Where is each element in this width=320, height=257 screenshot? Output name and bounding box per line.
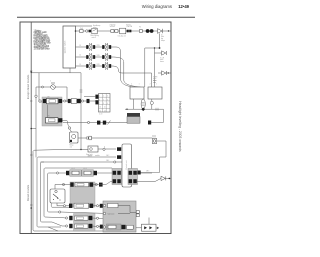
wire gauge labels left — [79, 45, 81, 66]
svg-text:lamps: lamps — [161, 40, 165, 42]
ECU stub 3 — [116, 161, 122, 163]
wire row 206 right — [93, 205, 104, 207]
fuse F19 — [111, 30, 114, 33]
wire left drop — [35, 87, 37, 95]
wire to block A right — [63, 87, 67, 102]
ECU pin blob 2 — [117, 155, 121, 159]
connector hatches x81 — [80, 90, 83, 92]
fuse F5 — [139, 30, 142, 33]
blob 172 — [138, 171, 141, 175]
wire main vertical x81 — [80, 73, 82, 150]
connector circle rowA2 — [82, 100, 84, 102]
pin table blobs — [95, 95, 98, 99]
section label — [88, 155, 100, 157]
block B right component — [136, 211, 139, 214]
pin wire labels — [104, 147, 149, 172]
block B row 2 — [103, 212, 105, 214]
key legend text block — [34, 30, 51, 51]
wire to frame — [166, 72, 171, 74]
wire switch out bottom — [57, 203, 69, 206]
connector circle — [86, 30, 88, 32]
bulbs row 2 wire — [76, 56, 113, 58]
wire block B to right box — [136, 227, 142, 229]
wire drop x39 — [39, 87, 42, 102]
svg-text:5H 4: 5H 4 — [106, 160, 109, 162]
svg-text:C 20: C 20 — [99, 114, 102, 116]
diesel switch box — [50, 189, 65, 203]
fuse F20 — [115, 30, 118, 33]
connector circle left — [35, 95, 37, 97]
levelling motor cylinder — [127, 113, 140, 117]
bulb connector blobs — [86, 45, 111, 68]
junction dot sidebar mid — [30, 128, 32, 130]
connector blob row184 right — [99, 183, 103, 187]
to front fog lamps label — [161, 34, 165, 41]
wire sidebar link — [31, 128, 36, 130]
blobs row 173 — [113, 171, 117, 175]
wire nested 3 — [41, 162, 114, 222]
svg-text:13: 13 — [104, 110, 106, 112]
wire relay out long — [91, 137, 152, 139]
row 218 connector — [65, 217, 67, 219]
svg-text:12•49: 12•49 — [178, 4, 189, 9]
pin table cell digits — [99, 96, 108, 113]
svg-text:5H 1: 5H 1 — [47, 116, 50, 118]
svg-text:F5: F5 — [139, 26, 141, 28]
headlamp relay label — [93, 25, 100, 29]
wire nested 6 switch left pin — [51, 203, 69, 207]
wire drop to switch row — [38, 73, 40, 87]
bulb RH main — [105, 62, 109, 68]
levelling relay — [70, 132, 79, 143]
wire mid horizontal — [125, 108, 163, 110]
levelling sensor gray block — [70, 182, 95, 207]
svg-text:Diesel: Diesel — [88, 155, 93, 157]
svg-text:F4 F11: F4 F11 — [126, 24, 131, 26]
motor solenoid oval — [141, 99, 145, 109]
junction slash — [108, 121, 111, 125]
wire left long drop — [35, 97, 37, 157]
motor circle under box2 — [150, 101, 153, 104]
svg-text:F19 F20: F19 F20 — [110, 24, 116, 26]
lighting switch box — [92, 28, 97, 34]
wire nested 2 — [37, 157, 116, 227]
connector box B1 — [130, 87, 144, 99]
node top feed junction — [75, 30, 77, 32]
wire connector to right — [157, 141, 166, 157]
svg-text:Wiring diagrams: Wiring diagrams — [142, 4, 172, 9]
bulb RH dip — [105, 53, 109, 59]
wire sidebar feed — [31, 72, 81, 74]
header rule — [17, 16, 195, 18]
wire nested 1 — [33, 150, 103, 231]
wire switch to ECU — [98, 148, 116, 150]
wire right drop to triangle row — [159, 157, 161, 173]
wire stop light feed — [34, 148, 88, 151]
arrow to other circuit — [158, 29, 163, 34]
connector blob rowA1 — [68, 99, 71, 103]
wire ticks — [156, 108, 158, 111]
fuse F1 — [80, 30, 84, 33]
svg-text:models: models — [95, 155, 100, 157]
svg-text:To: To — [161, 34, 163, 36]
junction dot corner — [159, 47, 161, 49]
arrow to RH circuit — [162, 71, 166, 75]
bulb lower ticks — [90, 49, 108, 70]
svg-text:5H 3: 5H 3 — [146, 170, 149, 172]
connector circle n5 — [56, 172, 58, 174]
pin table grid — [99, 94, 111, 113]
wire right col down — [151, 109, 163, 122]
wire row1 to pin table — [62, 100, 99, 102]
connector circle stopline — [103, 148, 105, 150]
bulb LH main — [89, 62, 93, 68]
levelling switch rotary — [51, 82, 56, 89]
box pin tick labels — [131, 84, 157, 86]
bulb dark pair — [146, 29, 150, 33]
wire row 226 right — [92, 226, 103, 227]
diagonal merge wires — [52, 222, 62, 226]
connector blob 206r — [100, 204, 103, 208]
wire box1 pin drop 2 — [142, 98, 144, 100]
junction dot sidebar — [30, 207, 32, 209]
ECU tall box — [122, 144, 132, 187]
junction dot right — [168, 72, 169, 73]
connector blob — [89, 30, 91, 33]
svg-text:11: 11 — [104, 107, 106, 109]
label to RH — [153, 76, 158, 82]
wire relay out — [78, 137, 86, 139]
connector circle rowA — [64, 100, 66, 102]
wire box bottom stub — [69, 68, 71, 73]
svg-text:To LH: To LH — [160, 57, 164, 59]
wire row1 curve to box1 — [116, 47, 134, 87]
wire switch row — [36, 86, 63, 88]
svg-text:Relay: Relay — [70, 145, 74, 147]
svg-text:2: 2 — [150, 84, 151, 86]
wire tap to arrow RH — [158, 72, 162, 74]
block A connector row 1 — [39, 100, 41, 102]
junction dot sidebar top — [30, 71, 32, 73]
svg-text:10: 10 — [99, 107, 101, 109]
connector circle 206r — [96, 205, 98, 207]
wire drop from arrow node — [145, 33, 160, 48]
junction circle — [42, 86, 44, 88]
wire row 173 to right — [137, 172, 152, 174]
svg-text:5H 21: 5H 21 — [71, 168, 75, 170]
wire relay feed right — [154, 48, 156, 87]
wire top auxiliary — [76, 25, 93, 27]
block A connector row 2 — [46, 118, 59, 123]
svg-text:Control unit: Control unit — [125, 160, 128, 170]
wire row 173 right — [97, 172, 112, 174]
bulb LH dip — [89, 53, 93, 59]
bulbs row 1 wire — [76, 46, 117, 48]
connector blobs mid row — [97, 121, 100, 125]
wire row 218 right — [92, 217, 103, 220]
junction dot x81 — [80, 149, 81, 150]
wire tap to arrow LH — [155, 52, 162, 54]
block B row 1 — [103, 204, 105, 206]
sensor row lower — [69, 204, 72, 208]
connector small box — [89, 136, 92, 140]
connector box rowA — [71, 99, 76, 104]
svg-text:To RH: To RH — [153, 76, 157, 78]
sidebar tick marks — [30, 71, 32, 205]
long wire 161 — [41, 161, 45, 163]
sensor row upper — [62, 183, 64, 185]
arrow bottom right — [161, 176, 165, 180]
svg-text:13 Stop light switch: 13 Stop light switch — [34, 48, 51, 51]
arrow out of diag box — [157, 227, 159, 230]
stop light switch box — [88, 146, 98, 152]
svg-text:Headlamp: Headlamp — [93, 25, 100, 27]
wire to relay — [70, 129, 72, 132]
connector circle row211 — [59, 211, 61, 213]
svg-text:fog: fog — [161, 38, 163, 40]
svg-text:main: main — [160, 59, 163, 61]
svg-text:Diesel models: Diesel models — [26, 184, 30, 201]
junction dot arrow — [169, 178, 171, 180]
connector circle 226r — [96, 225, 98, 227]
wire row3 to box2 — [112, 66, 152, 87]
svg-text:1.5: 1.5 — [79, 54, 81, 56]
svg-text:5H 2: 5H 2 — [106, 155, 109, 157]
connector circle 218r — [96, 217, 98, 219]
wire row 212 to block B — [61, 212, 103, 213]
wire nested 5 — [48, 173, 67, 212]
connector circle mid row — [87, 121, 89, 123]
ECU pin blob 1 — [117, 147, 121, 151]
ignition switch / fusebox tall box — [63, 26, 76, 68]
connector small right — [152, 139, 156, 144]
svg-text:1.5: 1.5 — [79, 64, 81, 66]
connector blob rowA3 — [87, 99, 90, 103]
wire switch top feed — [54, 185, 56, 190]
connector circle relay out — [86, 137, 88, 139]
connector assembly row 173 — [66, 171, 69, 175]
connector circle mid — [68, 127, 70, 129]
svg-text:1: 1 — [139, 84, 140, 86]
bulb LH side — [89, 43, 93, 49]
bulb RH side — [105, 43, 109, 49]
svg-text:Except diesel models: Except diesel models — [26, 74, 30, 99]
diagnostic connector box — [142, 224, 157, 231]
connector blob x81 — [77, 99, 81, 103]
svg-text:12: 12 — [99, 110, 101, 112]
diamond node — [141, 107, 145, 111]
svg-text:main: main — [153, 78, 156, 80]
wire row mid-left — [63, 122, 127, 124]
wire row2 curve to box1 — [112, 57, 141, 87]
svg-text:Ignition switch: Ignition switch — [64, 41, 67, 54]
feed wire hatches — [153, 81, 156, 83]
junction dot feed — [154, 47, 155, 48]
wire sensor upper right — [93, 182, 112, 185]
sidebar divider line — [30, 22, 32, 234]
junction dot supply end — [168, 30, 169, 31]
lower connector gray box — [74, 214, 96, 232]
blobs row 181 — [113, 179, 117, 183]
connector circle n3 — [114, 161, 116, 163]
connector blob right mid — [148, 121, 151, 125]
label to LH — [160, 57, 165, 63]
wire block A row2 out — [63, 120, 70, 126]
dim-dip unit box — [120, 28, 126, 34]
wire box1 pin drop 1 — [133, 99, 135, 109]
wire drop to box1 right — [144, 48, 146, 87]
diagram frame — [20, 22, 171, 234]
wire row 181 to right — [137, 181, 150, 183]
block A inner wire — [47, 105, 49, 118]
bottom mid connector gray left — [112, 169, 122, 185]
wire 172 horizontal — [138, 172, 160, 174]
wire nested 4 — [44, 168, 112, 218]
bottom mid connector gray right — [128, 169, 138, 185]
big block B shaded — [103, 201, 136, 232]
wire row 226 left — [62, 225, 65, 227]
svg-text:high beam: high beam — [108, 214, 116, 216]
junction dot mid — [126, 109, 127, 110]
connector blob pair — [127, 30, 129, 33]
connector blob 226r — [100, 225, 103, 229]
bulbs row 3 wire — [76, 65, 113, 67]
connector box B2 — [148, 87, 162, 99]
svg-text:5H 1: 5H 1 — [47, 97, 50, 99]
svg-text:5H 22: 5H 22 — [83, 168, 87, 170]
block B row 3 — [103, 226, 105, 228]
junction circle row206 — [63, 205, 65, 207]
block B inner vertical — [130, 206, 136, 213]
wire upper to table — [84, 96, 95, 98]
svg-text:Headlight levelling - 2003 onw: Headlight levelling - 2003 onwards — [178, 101, 182, 152]
wire arrow to frame — [165, 177, 171, 179]
row 226 connector — [65, 225, 67, 227]
arrow to LH circuit — [162, 51, 166, 55]
svg-text:1.5: 1.5 — [79, 45, 81, 47]
wire supply row — [76, 30, 172, 32]
levelling switch block A shaded — [42, 97, 62, 126]
